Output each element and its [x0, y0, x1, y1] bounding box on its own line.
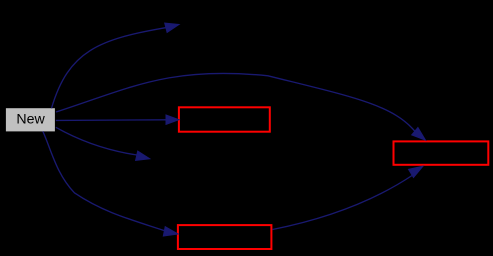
arrowhead New->node1 — [165, 23, 179, 32]
arrowhead New->center box — [166, 115, 179, 124]
bottom box (red truncated node) — [178, 225, 272, 249]
node2 (invisible black node, middle) — [150, 147, 243, 173]
right box (red truncated node) — [394, 141, 489, 164]
svg-text:New: New — [16, 111, 45, 127]
edge New->right box (long top curve) — [56, 73, 415, 131]
arrowhead New->node2 — [136, 151, 150, 160]
edge bottom box->right box — [273, 175, 413, 230]
edge New->center box — [56, 119, 166, 122]
node New (current node, gray) — [5, 108, 55, 132]
node1 (invisible black node, top) — [179, 11, 272, 37]
edge New->node1 (top) — [52, 28, 166, 109]
center box (red truncated node) — [179, 107, 270, 131]
arrowhead New->right box — [412, 128, 426, 141]
edge New->bottom box — [43, 131, 164, 230]
edge New->node2 (short diagonal) — [56, 127, 137, 155]
arrowhead bottom box->right box — [409, 166, 424, 177]
arrowhead New->bottom box — [163, 227, 178, 236]
